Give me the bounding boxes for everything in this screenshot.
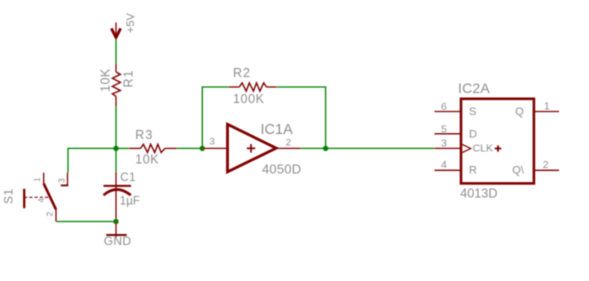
node B junction: [113, 219, 118, 224]
wire node C up and over to R2 (feedback left): [202, 87, 228, 148]
node D junction: [323, 146, 328, 151]
svg-text:4050D: 4050D: [262, 161, 301, 176]
svg-text:R2: R2: [233, 66, 251, 80]
wire R3 to node C: [177, 147, 202, 149]
wire R2 to node D (feedback right): [277, 87, 326, 148]
switch S1: [2, 173, 69, 222]
svg-text:D: D: [469, 129, 477, 141]
svg-text:Q: Q: [515, 106, 524, 118]
wire switch pin2 to node B: [56, 221, 116, 223]
resistor R3 10K: [129, 128, 177, 166]
svg-text:3: 3: [210, 137, 215, 148]
svg-text:10K: 10K: [135, 153, 159, 167]
svg-text:S: S: [469, 106, 476, 118]
wire R1 to node A: [115, 107, 117, 149]
svg-text:R3: R3: [135, 128, 153, 142]
flip-flop IC2A pin 2 Q\ lead: [534, 169, 559, 171]
resistor R2 100K: [229, 66, 277, 106]
svg-text:4: 4: [36, 198, 46, 203]
svg-text:CLK: CLK: [473, 143, 493, 155]
svg-text:1µF: 1µF: [120, 195, 140, 207]
node C junction: [200, 146, 205, 151]
svg-text:2: 2: [543, 159, 549, 171]
svg-text:3: 3: [56, 178, 66, 183]
flip-flop IC2A pin 4 R lead: [435, 169, 462, 171]
svg-text:3: 3: [441, 137, 447, 149]
svg-text:S1: S1: [2, 188, 16, 204]
flip-flop IC2A pin 6 S lead: [435, 111, 462, 113]
wire node A to R3: [116, 147, 129, 149]
wire IC1A output to node D: [301, 147, 326, 149]
svg-text:R: R: [469, 164, 477, 176]
wire node A down to C1: [115, 148, 117, 172]
IC1A output lead pin 2: [276, 147, 301, 149]
svg-text:1: 1: [544, 101, 550, 113]
resistor R1 10K: [99, 64, 136, 107]
op-amp buffer IC1A input lead pin 3: [202, 147, 227, 149]
svg-text:2: 2: [45, 212, 55, 217]
svg-text:IC1A: IC1A: [261, 122, 294, 138]
flip-flop IC2A pin 5 D lead: [435, 133, 462, 135]
svg-text:C1: C1: [120, 172, 136, 184]
wire +5V to R1: [115, 39, 117, 64]
svg-text:+5V: +5V: [125, 12, 137, 33]
svg-text:GND: GND: [104, 234, 132, 248]
svg-text:IC2A: IC2A: [458, 80, 490, 96]
ground GND: [104, 222, 132, 249]
svg-text:Q\: Q\: [512, 164, 525, 176]
svg-text:R1: R1: [122, 70, 136, 88]
flip-flop IC2A pin 3 CLK lead: [435, 147, 462, 149]
svg-text:5: 5: [441, 124, 447, 136]
svg-text:6: 6: [441, 101, 447, 113]
svg-text:100K: 100K: [233, 92, 265, 106]
svg-text:4: 4: [441, 159, 447, 171]
node A junction: [113, 146, 118, 151]
svg-text:4013D: 4013D: [460, 186, 497, 200]
wire node D to IC2A clk: [326, 147, 435, 149]
svg-text:10K: 10K: [99, 68, 113, 92]
supply +5V symbol: [111, 12, 137, 39]
capacitor C1 1uF: [104, 172, 140, 222]
op-amp buffer IC1A 4050D: [228, 122, 302, 176]
svg-text:1: 1: [32, 177, 42, 182]
flip-flop IC2A pin 1 Q lead: [534, 111, 559, 113]
wire node A to switch (left then down): [68, 148, 116, 172]
flip-flop IC2A 4013D body: [458, 80, 534, 200]
svg-text:2: 2: [286, 138, 291, 149]
